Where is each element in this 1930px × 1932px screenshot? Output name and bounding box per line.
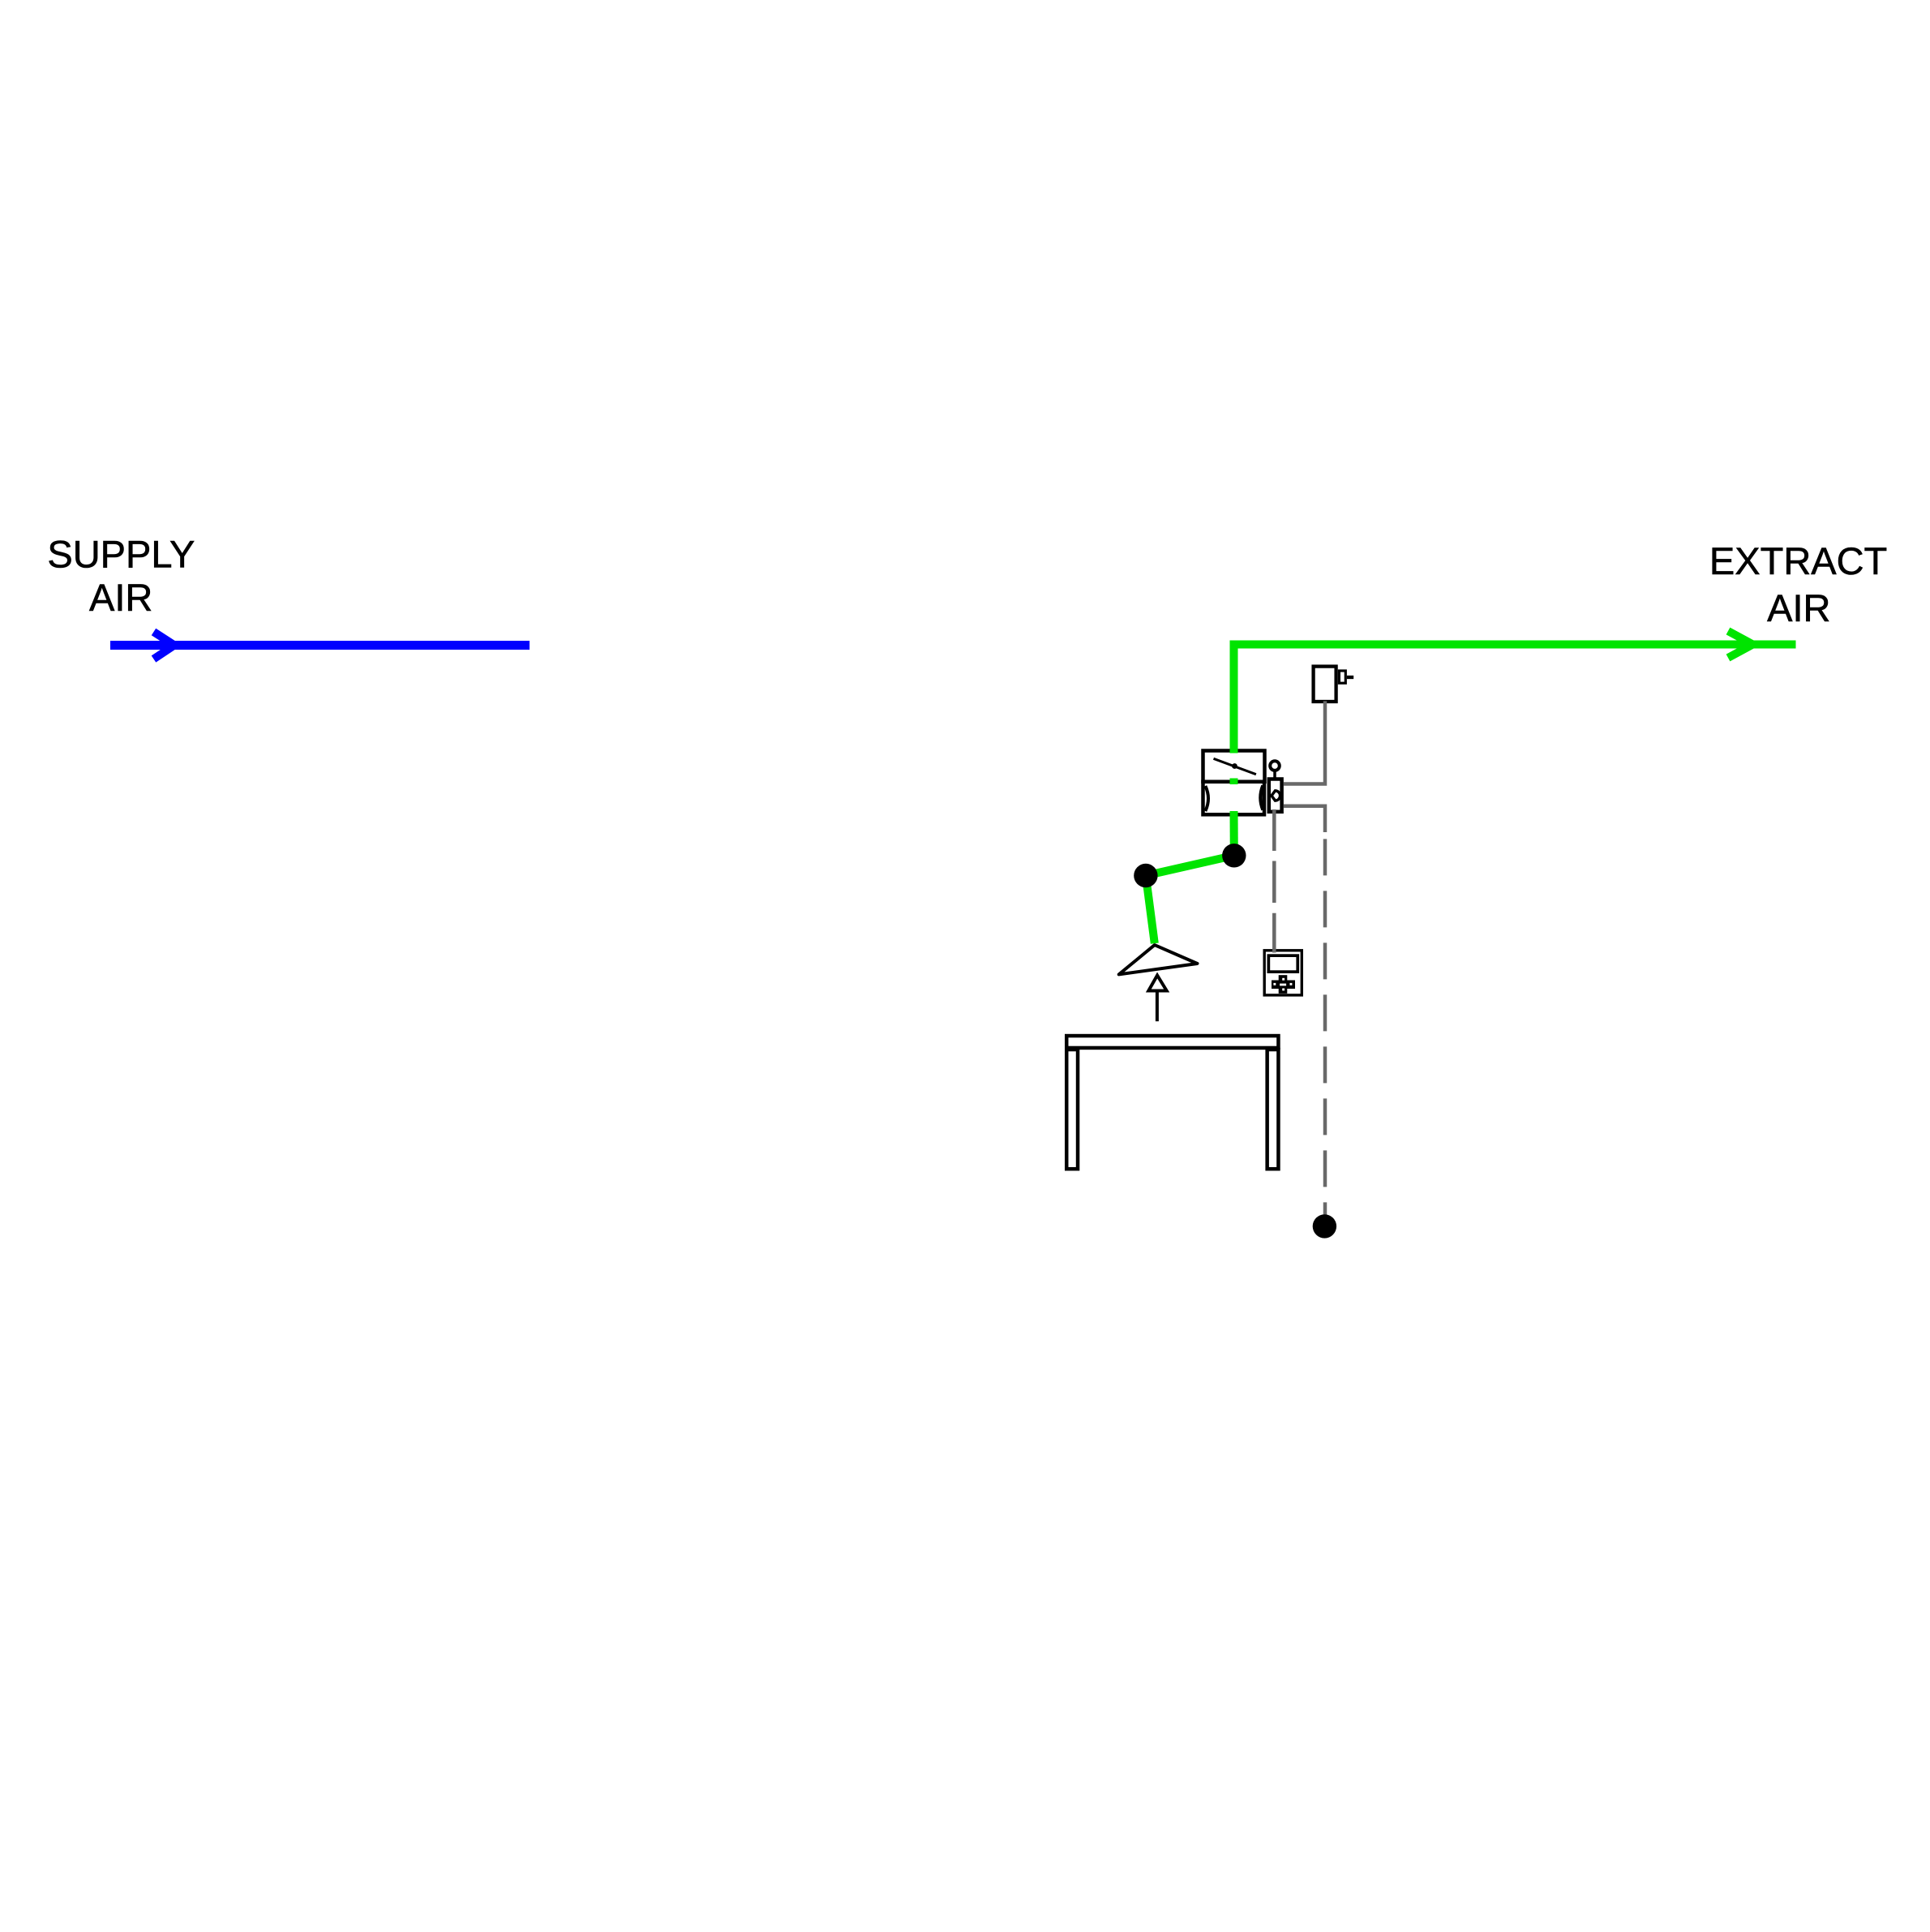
svg-text:AIR: AIR [89,576,152,619]
svg-text:AIR: AIR [1767,586,1830,629]
svg-text:SUPPLY: SUPPLY [47,533,195,576]
svg-text:EXTRACT: EXTRACT [1709,539,1887,582]
